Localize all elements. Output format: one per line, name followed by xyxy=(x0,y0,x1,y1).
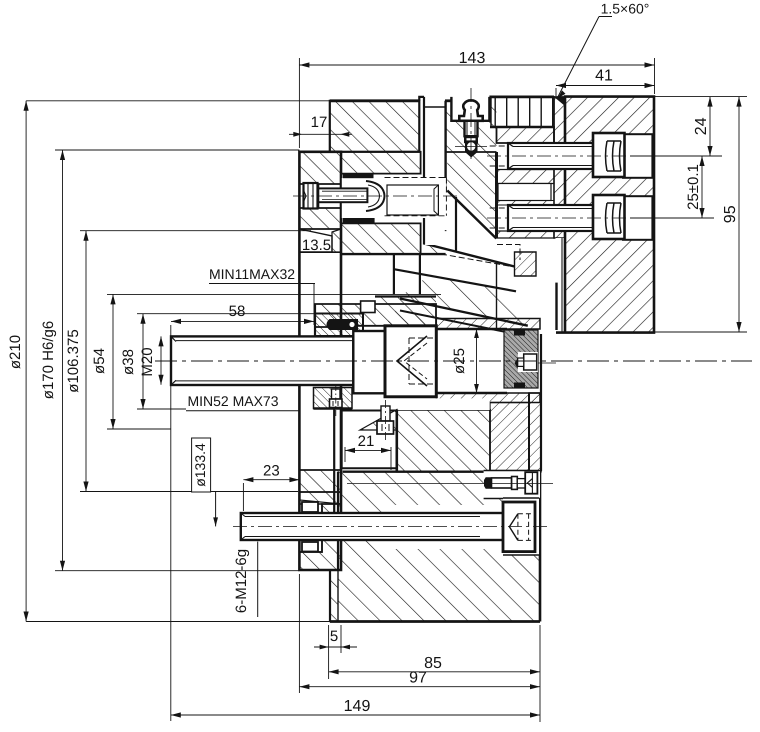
dim 58 xyxy=(171,320,314,322)
phi133.4 leader arrow xyxy=(213,517,218,526)
label 13.5 underline xyxy=(300,252,341,254)
piston step notch xyxy=(361,301,375,313)
vertical bolt B head xyxy=(330,399,343,408)
bolt lower thread line top xyxy=(513,208,593,210)
grease fitting recess xyxy=(451,97,489,121)
dim phi170 xyxy=(62,150,64,571)
right block body xyxy=(565,97,654,332)
svg-text:ø133.4: ø133.4 xyxy=(192,443,208,487)
bore bottom wall hatch strip xyxy=(436,393,540,403)
grease fitting stem xyxy=(465,121,478,136)
vertical bolt B shaft xyxy=(332,389,341,399)
svg-text:143: 143 xyxy=(459,50,486,67)
flange lower hatch wedge xyxy=(299,492,341,504)
label MIN11MAX32 underline xyxy=(209,283,315,285)
cone right boundary thick xyxy=(495,152,498,239)
bolt lower hidden thread dashes xyxy=(490,208,508,228)
cone right boundary thin xyxy=(496,262,498,329)
hex bolt head facets xyxy=(308,183,313,209)
claw cavity white xyxy=(342,178,447,218)
svg-text:ø210: ø210 xyxy=(7,335,24,369)
svg-text:MIN52 MAX73: MIN52 MAX73 xyxy=(187,393,278,409)
bolt upper thread line bottom xyxy=(513,165,593,167)
seal dark block underlay xyxy=(504,330,538,388)
grease fitting ball cross xyxy=(455,146,487,148)
svg-text:21: 21 xyxy=(358,433,375,450)
clamp ring small hatch xyxy=(515,252,537,276)
flange plate outline xyxy=(299,152,341,570)
head hex socket chevron inner xyxy=(404,343,427,379)
hex bolt washer line xyxy=(318,185,320,208)
dim phi38 xyxy=(142,314,144,409)
bolt lower end chamfer xyxy=(508,205,513,231)
draw bolt collar xyxy=(353,331,385,393)
bolt pilot cylinder xyxy=(387,185,438,215)
channel right wall xyxy=(444,101,446,191)
dim 97 xyxy=(299,686,540,688)
cone inner vertical edge xyxy=(455,197,457,251)
svg-text:25±0.1: 25±0.1 xyxy=(685,164,702,210)
svg-text:ø106.375: ø106.375 xyxy=(65,329,82,392)
grease fitting centerline xyxy=(470,88,472,163)
ext x328.6 bottom xyxy=(328,625,330,679)
long bolt left chamfer xyxy=(241,513,245,540)
bottom block right edge xyxy=(539,472,542,622)
svg-text:23: 23 xyxy=(263,463,280,480)
cavity corner wedge hatch xyxy=(360,410,397,431)
ext line x554 for 41 xyxy=(555,88,557,96)
leader 6-M12 xyxy=(257,542,259,617)
claw bulb inner arc xyxy=(368,185,380,207)
bore top wall line xyxy=(436,328,507,330)
boss white cavity between bolts xyxy=(498,184,551,201)
body cone hatch right of channel xyxy=(445,97,497,239)
dim phi25 line xyxy=(476,329,478,393)
channel top lip xyxy=(424,106,445,108)
dim 21 xyxy=(345,449,391,451)
white channel under fitting xyxy=(425,107,445,245)
top edge far right xyxy=(489,96,554,99)
ext phi54 top xyxy=(107,293,441,295)
long bolt shaft xyxy=(241,513,503,540)
lever wide hatch wedge xyxy=(400,275,528,326)
ext phi210 bottom xyxy=(26,621,330,623)
grease fitting nipple xyxy=(459,100,482,121)
small bolt neck xyxy=(517,479,525,488)
ext 21 left xyxy=(344,447,346,462)
small bolt centerline xyxy=(347,483,553,485)
seal block screw head xyxy=(524,354,537,370)
bore top wall hatch strip xyxy=(436,319,540,330)
ext 58 right xyxy=(313,284,315,326)
cone steep edge xyxy=(447,191,496,239)
dim phi54 xyxy=(112,294,114,429)
ext line y332 right xyxy=(655,331,748,333)
long bolt hex dashes xyxy=(518,514,532,541)
svg-text:41: 41 xyxy=(595,68,613,85)
tapped hole hidden end xyxy=(445,178,447,216)
bottom block xyxy=(338,472,540,622)
boss hatch between bolts xyxy=(497,170,555,184)
svg-text:97: 97 xyxy=(409,670,427,687)
bolt lower head xyxy=(593,195,625,239)
seal dark block xyxy=(504,330,538,388)
svg-text:24: 24 xyxy=(693,117,710,135)
head hex socket chevron xyxy=(397,336,427,386)
tapped hole hidden bottom xyxy=(385,215,447,217)
vertical bolt B centerline xyxy=(335,385,337,416)
column between walls line xyxy=(540,334,542,471)
plate bottom step edge xyxy=(445,151,497,153)
grease fitting ball housing xyxy=(465,142,478,158)
dim 95 xyxy=(738,97,740,332)
dim 149 xyxy=(171,714,540,716)
bolt B boss block xyxy=(314,388,353,409)
ext phi170 bottom xyxy=(55,570,299,572)
boss hatch below bolt2 xyxy=(497,231,555,238)
piston top edge xyxy=(375,295,436,297)
ext phi38 top xyxy=(137,313,330,315)
dim 5 line xyxy=(314,646,357,648)
svg-text:1.5×60°: 1.5×60° xyxy=(601,1,650,17)
bolt upper head xyxy=(593,133,625,177)
boss hatch above bolt1 xyxy=(497,127,555,143)
right block step thick edge xyxy=(555,283,557,330)
svg-text:ø25: ø25 xyxy=(451,348,468,374)
ext phi106 bottom xyxy=(80,491,298,493)
pin pocket hatch xyxy=(315,314,363,337)
lever hidden dash line xyxy=(441,254,509,266)
long bolt thread top xyxy=(245,516,480,518)
vertical bolt A shaft xyxy=(381,406,390,421)
seal block corner bottom xyxy=(514,383,525,389)
flange plate hatch below bolt hole xyxy=(299,208,341,229)
piston upper mass xyxy=(315,304,436,327)
bore bottom wall line xyxy=(436,392,507,394)
seal block screw shaft xyxy=(518,358,524,366)
small bolt thread black xyxy=(484,477,492,489)
bolt upper counterbore xyxy=(623,134,652,178)
grease fitting ball xyxy=(467,142,475,150)
small bolt notch lines xyxy=(484,470,540,472)
right block inner step white xyxy=(556,238,566,283)
bottom narrow strip xyxy=(330,570,338,622)
body top plate left xyxy=(330,101,420,152)
bolt lower centerline xyxy=(487,217,668,219)
head hidden socket right xyxy=(409,338,436,384)
hex bolt left head xyxy=(304,183,318,209)
small bolt notch white xyxy=(484,471,540,499)
body mass below claw cavity xyxy=(341,223,421,254)
label MIN52MAX73 underline xyxy=(186,410,299,412)
svg-text:MIN11MAX32: MIN11MAX32 xyxy=(209,266,295,282)
grease fitting stem inner xyxy=(467,121,475,136)
flange lower hatch band xyxy=(299,470,341,492)
vertical bolt A centerline xyxy=(385,400,387,440)
mass bottom edge xyxy=(341,253,446,255)
T-slot notch lower xyxy=(302,542,318,552)
vertical bolt A head xyxy=(377,421,394,434)
piston left edge xyxy=(314,304,316,336)
ext 23 left xyxy=(242,483,244,511)
dim 5 arrows xyxy=(320,645,329,650)
lever bottom line b xyxy=(400,311,528,337)
bottom block left edge xyxy=(330,472,338,622)
main centerline xyxy=(155,360,752,362)
ext phi106 top xyxy=(80,230,311,232)
bolt lower thread line bottom xyxy=(513,227,593,229)
small bolt head chevron xyxy=(527,479,532,488)
band bottom edge xyxy=(490,126,554,128)
right block top chamfer xyxy=(554,97,565,106)
right block outline xyxy=(556,97,654,333)
lever left vertical 1 xyxy=(393,254,395,295)
dim phi210 xyxy=(25,101,27,622)
bottom block bottom edge xyxy=(330,620,540,623)
long bolt head counterbore lines xyxy=(503,498,539,555)
flange hatch sliver right of step xyxy=(332,229,341,252)
column left edge xyxy=(528,393,530,471)
long bolt thread bottom xyxy=(245,536,480,538)
body mass above claw xyxy=(341,152,421,174)
dim 17 arrows xyxy=(293,132,302,137)
cone white face xyxy=(424,191,497,262)
ext phi210 top xyxy=(26,100,330,102)
chamfer leader 1.5x60 xyxy=(557,17,612,100)
bolt upper socket knurl xyxy=(606,141,622,171)
cavity right edge thick xyxy=(395,410,398,472)
label phi133.4 box xyxy=(192,438,211,492)
svg-text:ø170 H6/g6: ø170 H6/g6 xyxy=(40,321,57,399)
column hatch xyxy=(529,393,541,472)
small bolt notch bottom xyxy=(484,498,540,500)
small bolt collar xyxy=(512,477,518,490)
seal block screw slot xyxy=(518,352,538,372)
seal block corner top xyxy=(514,330,525,336)
chamfer leader arrow xyxy=(556,90,566,100)
ext 21 right xyxy=(390,447,392,470)
grease fitting seal band xyxy=(464,137,478,144)
long bolt clearance white xyxy=(382,505,503,549)
piston cavity white xyxy=(342,411,397,469)
vertical lines cone band xyxy=(491,97,554,127)
small bolt head facet xyxy=(531,472,533,494)
long bolt head xyxy=(503,502,535,552)
claw lower bar xyxy=(343,218,375,223)
draw bolt shaft xyxy=(171,336,353,385)
left bolt centerline xyxy=(293,195,458,197)
dim M20 xyxy=(160,336,162,384)
svg-text:6-M12-6g: 6-M12-6g xyxy=(233,549,250,613)
ext x341 bottom xyxy=(340,625,342,653)
claw upper bar xyxy=(343,174,374,179)
hidden cavity dashed xyxy=(424,231,520,260)
svg-text:ø54: ø54 xyxy=(91,348,108,374)
sliver hatch above head xyxy=(385,310,436,326)
flange step white trapezoid xyxy=(299,229,332,252)
tapped hole hidden top xyxy=(385,177,447,179)
hex bolt left thread lines xyxy=(322,191,367,199)
top edge right xyxy=(445,99,451,102)
seal screw centerline xyxy=(538,362,556,364)
under-head white row xyxy=(342,398,490,410)
vertical bolt A knurl xyxy=(382,424,389,431)
boss hatch above bolt2 xyxy=(497,201,555,206)
top tab above channel xyxy=(419,97,424,101)
piston lower mass xyxy=(397,410,490,472)
long bolt hex chevron xyxy=(509,514,518,541)
body mass channel bottom patch xyxy=(421,244,446,254)
svg-text:M20: M20 xyxy=(139,347,156,376)
lever top line xyxy=(424,244,515,267)
lever bottom line a xyxy=(400,299,528,326)
flange plate upper hatch xyxy=(299,152,341,184)
svg-text:149: 149 xyxy=(344,698,371,715)
grease fitting seal slot xyxy=(467,138,476,140)
ext phi54 bottom xyxy=(107,428,171,430)
dim 23 xyxy=(243,479,299,481)
draw bolt thread top xyxy=(176,340,353,342)
draw bolt left chamfer xyxy=(171,336,176,385)
ext x540 bottom xyxy=(539,625,541,722)
bottom block top edge xyxy=(343,471,535,473)
bolt pilot chamfer xyxy=(434,185,438,215)
draw bolt head xyxy=(385,326,436,397)
jaw vertical line xyxy=(333,409,335,513)
ext line y218 right xyxy=(630,217,714,219)
ext phi38 bottom xyxy=(137,408,186,410)
dim 17 line xyxy=(289,133,352,135)
long bolt centerline xyxy=(233,525,551,527)
ext x299 bottom xyxy=(298,574,300,693)
ext x170.8 long xyxy=(170,325,172,721)
svg-text:5: 5 xyxy=(330,628,338,645)
svg-text:13.5: 13.5 xyxy=(302,237,331,254)
bolt upper shaft xyxy=(508,143,593,169)
small bolt shaft xyxy=(492,478,512,488)
bolt B boss bottom edge xyxy=(314,407,353,409)
svg-text:58: 58 xyxy=(229,303,246,320)
T-slot notch upper xyxy=(302,502,318,512)
ext line left x299 top xyxy=(298,58,300,148)
seal block screw tip xyxy=(515,358,518,368)
lever left vertical 2 xyxy=(419,254,421,295)
bolt upper end chamfer xyxy=(508,143,513,169)
svg-text:95: 95 xyxy=(722,205,739,223)
ext line x656 top xyxy=(654,58,656,94)
bolt upper centerline xyxy=(487,155,668,157)
channel left wall xyxy=(423,97,425,245)
ext phi170 top xyxy=(55,149,299,151)
hex bolt left shaft xyxy=(317,188,367,202)
phi133.4 leader xyxy=(215,492,217,526)
dim phi25 arrows xyxy=(474,329,479,338)
hex bolt head chamfer xyxy=(304,190,307,202)
draw bolt thread bottom xyxy=(176,380,353,382)
dim 25+-0.1 xyxy=(701,156,703,218)
dim 143 xyxy=(299,64,654,66)
flange lower right hatch xyxy=(299,504,341,570)
ext line y96.6 right xyxy=(655,96,748,98)
bolt upper hidden thread dashes xyxy=(490,146,508,166)
dim 41 xyxy=(556,85,655,87)
bolt lower counterbore xyxy=(623,196,652,240)
dim 85 xyxy=(329,671,540,673)
right lower hatch above small bolt xyxy=(490,403,529,471)
lever line A xyxy=(394,269,516,291)
claw bulb xyxy=(366,181,385,211)
long bolt head counterbore white xyxy=(503,498,539,555)
ext line y156 right xyxy=(630,155,722,157)
vertical bolt B knurl xyxy=(333,401,338,406)
top edge left xyxy=(330,99,420,102)
small bolt head xyxy=(525,472,537,494)
flange lower white rim xyxy=(299,504,322,552)
bolt lower socket knurl xyxy=(606,203,622,233)
dim 24 xyxy=(709,97,711,156)
pin white dot xyxy=(349,322,354,327)
svg-text:17: 17 xyxy=(311,114,328,131)
pin black sausage xyxy=(327,319,359,330)
right block step thin edge xyxy=(561,238,563,332)
bolt lower shaft xyxy=(508,205,593,231)
bolt upper thread line top xyxy=(513,146,593,148)
sleeve strip xyxy=(554,97,565,238)
svg-text:ø38: ø38 xyxy=(120,349,137,375)
dim phi106 xyxy=(85,231,87,492)
piston top strip xyxy=(375,297,436,305)
